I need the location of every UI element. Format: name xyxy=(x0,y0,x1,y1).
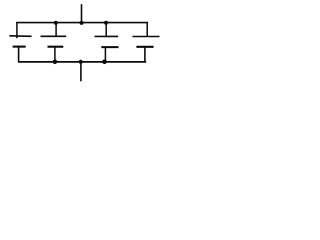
node: junction dot, C3 bottom lead on bottom rail xyxy=(102,60,107,65)
node: junction dot, C3 top lead on top rail xyxy=(104,21,108,25)
wire: C1 bottom lead xyxy=(18,47,20,62)
wire: C4 top lead xyxy=(146,22,148,37)
capacitor C2 bottom plate xyxy=(48,46,64,48)
wire: C2 bottom lead xyxy=(54,47,56,62)
wire: C2 top lead xyxy=(55,23,57,37)
capacitor C1 top plate xyxy=(9,35,31,38)
node: junction dot, bottom terminal on bottom rail xyxy=(79,60,83,64)
wire: top terminal stub xyxy=(81,4,83,23)
node: junction dot, C2 bottom lead on bottom rail xyxy=(53,60,58,65)
capacitor C1 bottom plate xyxy=(13,46,26,48)
capacitor C4 top plate xyxy=(132,36,159,38)
node: junction dot, C2 top lead on top rail xyxy=(54,21,58,25)
capacitor C3 top plate xyxy=(95,35,119,37)
wire: C3 bottom lead xyxy=(104,47,106,62)
wire: top rail xyxy=(16,22,148,24)
capacitor C4 bottom plate xyxy=(136,46,153,48)
wire: C4 bottom lead xyxy=(144,47,146,62)
capacitor C2 top plate xyxy=(41,35,67,37)
capacitor C3 bottom plate xyxy=(101,46,118,48)
wire: C3 top lead xyxy=(105,23,107,37)
wire: C1 top lead xyxy=(16,22,18,38)
wire: bottom rail xyxy=(18,61,146,63)
wire: bottom terminal stub xyxy=(80,62,82,81)
node: junction dot, top terminal on top rail xyxy=(80,21,84,25)
